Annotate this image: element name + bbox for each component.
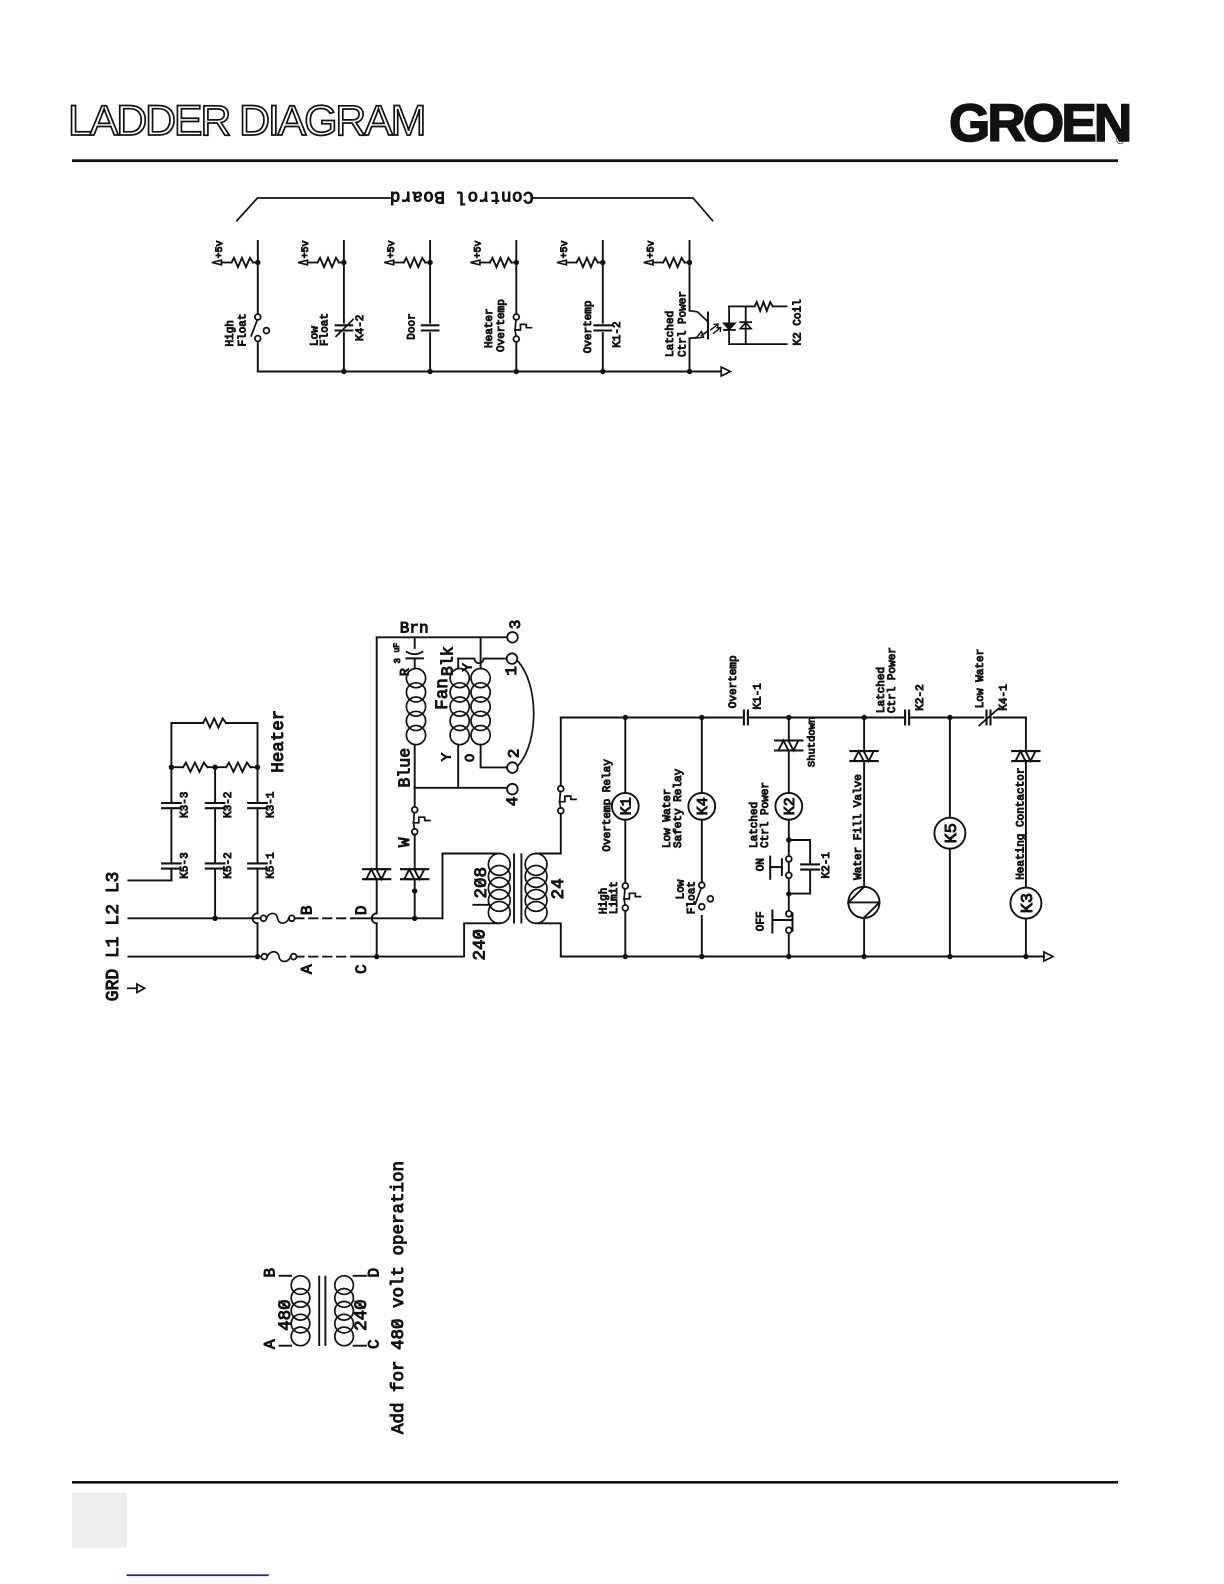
- label 1: [503, 666, 521, 676]
- heater bank top wire: [171, 722, 257, 724]
- contact K1-1: [743, 711, 745, 725]
- label C (480): [366, 1339, 384, 1349]
- contact K4-2 (NC): [336, 319, 354, 336]
- rail 2 wire Low Float: [343, 241, 345, 372]
- svg-text:High: High: [225, 320, 237, 346]
- terminal 3: [507, 632, 518, 643]
- 480V transformer A lead: [280, 1345, 291, 1347]
- label Y bottom: [440, 752, 456, 761]
- svg-text:240: 240: [470, 929, 490, 961]
- contact K5-1: [248, 862, 267, 864]
- label 2: [505, 749, 523, 759]
- wire K2 coil return: [746, 343, 787, 345]
- terminal 2: [507, 762, 518, 773]
- wire L3: [128, 869, 171, 881]
- wire L2: [128, 916, 260, 921]
- svg-text:Blue: Blue: [395, 748, 414, 788]
- label Low Float (ladder): [676, 879, 699, 914]
- +5v pull-up resistor rail 4: [470, 240, 519, 267]
- svg-text:1: 1: [503, 666, 521, 676]
- dashed wire A to C: [309, 956, 352, 958]
- svg-text:Low Water: Low Water: [975, 649, 987, 708]
- phototransistor Latched Ctrl Power: [690, 311, 721, 339]
- wire D to transformer: [352, 854, 499, 922]
- svg-text:K4-2: K4-2: [355, 315, 367, 341]
- svg-text:4: 4: [504, 797, 522, 807]
- svg-text:Add for 480 volt operation: Add for 480 volt operation: [389, 1161, 409, 1434]
- relay K3: [1010, 888, 1041, 919]
- optocoupler LED pair: [724, 306, 751, 344]
- pushbutton OFF: [786, 911, 792, 917]
- svg-text:Heating Contactor: Heating Contactor: [1016, 768, 1028, 880]
- svg-text:Heater: Heater: [484, 308, 496, 348]
- triac heating contactor: [1012, 750, 1039, 752]
- control board bottom bus: [258, 369, 721, 374]
- ladder top bus: [561, 715, 1026, 720]
- contact K5-3: [162, 862, 181, 864]
- svg-text:Float: Float: [687, 881, 699, 914]
- svg-text:Heater: Heater: [269, 710, 289, 773]
- svg-text:24: 24: [549, 878, 569, 899]
- label A (480): [262, 1339, 280, 1349]
- svg-text:K2: K2: [782, 797, 799, 815]
- switch secondary thermal: [558, 786, 564, 792]
- resistor K2 coil series: [746, 302, 787, 311]
- +5v pull-up resistor rail 3: [384, 240, 433, 267]
- 480V transformer D lead: [354, 1275, 366, 1277]
- svg-text:GROEN: GROEN: [949, 94, 1129, 153]
- label Heater Overtemp: [484, 299, 508, 352]
- label R3: [393, 658, 413, 676]
- rail 6 wire Latched Ctrl Power: [689, 241, 691, 372]
- svg-text:K1-2: K1-2: [612, 321, 624, 347]
- contact K3-1: [248, 802, 267, 804]
- label D: [353, 905, 371, 915]
- svg-text:208: 208: [472, 867, 492, 899]
- svg-text:K5: K5: [943, 823, 962, 843]
- svg-text:3: 3: [507, 620, 525, 630]
- relay K5: [934, 818, 965, 849]
- svg-text:Fan: Fan: [433, 678, 453, 710]
- svg-text:Shutdown: Shutdown: [807, 717, 819, 767]
- switch Low Float (K4): [699, 882, 705, 888]
- pushbutton ON: [786, 856, 792, 862]
- triac Shutdown: [775, 739, 802, 741]
- svg-text:+5v: +5v: [473, 240, 484, 258]
- relay K2 rail: [786, 718, 791, 957]
- label Add for 480 volt operation: [389, 1161, 409, 1434]
- 480V secondary winding: [335, 1276, 354, 1346]
- contact K3-2: [206, 802, 225, 804]
- valve rail: [863, 718, 865, 957]
- switch Heater Overtemp: [513, 314, 531, 342]
- contact K1-2: [595, 325, 612, 330]
- switch High Limit (K1): [622, 883, 628, 889]
- fan right triac lower lead: [412, 879, 417, 918]
- svg-text:K2 Coil: K2 Coil: [793, 299, 805, 345]
- triac water fill: [850, 750, 877, 752]
- svg-text:K2-1: K2-1: [821, 852, 833, 879]
- footer rule: [72, 1481, 1118, 1484]
- switch W: [412, 788, 430, 869]
- svg-text:Overtemp Relay: Overtemp Relay: [602, 759, 614, 852]
- secondary top lead: [536, 814, 561, 854]
- svg-text:Overtemp: Overtemp: [496, 299, 508, 352]
- svg-text:K3-3: K3-3: [179, 792, 191, 818]
- secondary bottom lead: [536, 923, 561, 956]
- svg-text:+5v: +5v: [560, 240, 571, 258]
- rail 1 wire High Float: [257, 241, 259, 372]
- svg-text:K2-2: K2-2: [915, 684, 927, 710]
- svg-text:OFF: OFF: [756, 911, 768, 931]
- svg-text:480: 480: [276, 1299, 296, 1331]
- svg-text:+5v: +5v: [647, 240, 658, 258]
- svg-text:LADDER DIAGRAM: LADDER DIAGRAM: [68, 97, 424, 145]
- label Y top: [461, 663, 477, 672]
- ground arrow GRD: [128, 984, 145, 993]
- svg-text:Float: Float: [320, 313, 332, 346]
- 480V transformer core: [319, 1277, 325, 1345]
- contact K4-1 (NC): [979, 708, 999, 725]
- svg-text:K4-1: K4-1: [998, 684, 1010, 711]
- header rule: [72, 159, 1118, 162]
- svg-text:+5v: +5v: [215, 240, 226, 258]
- svg-text:D: D: [366, 1268, 384, 1278]
- svg-text:W: W: [396, 837, 414, 847]
- heater bank mid wire: [169, 765, 261, 770]
- svg-text:Ctrl Power: Ctrl Power: [677, 291, 689, 357]
- rail 5 wire Overtemp: [602, 241, 604, 372]
- transformer secondary winding 24: [525, 854, 547, 924]
- svg-text:K4: K4: [695, 797, 712, 815]
- label B: [298, 905, 316, 915]
- svg-text:C: C: [353, 964, 371, 974]
- fan winding Blue-Brn: [406, 669, 425, 745]
- terminal 4: [507, 784, 518, 795]
- svg-text:uF: uF: [393, 643, 402, 653]
- resistor heater right: [226, 763, 250, 772]
- +5v pull-up resistor rail 2: [298, 240, 347, 267]
- wire fan common to terminal 4: [415, 787, 508, 789]
- terminal 1: [507, 653, 518, 664]
- switch High Float: [251, 314, 269, 341]
- svg-text:K5-3: K5-3: [179, 852, 191, 878]
- label 240 primary: [470, 929, 490, 961]
- wire Brn top: [377, 636, 508, 638]
- svg-text:Latched: Latched: [665, 311, 677, 357]
- control board brace: [237, 198, 390, 221]
- label A: [298, 964, 316, 974]
- relay K4: [688, 793, 715, 820]
- ladder bus arrow: [1044, 952, 1053, 961]
- wire C to transformer: [352, 923, 499, 959]
- footer gray box: [72, 1493, 127, 1548]
- relay K5 rail: [949, 718, 951, 957]
- svg-text:K3-1: K3-1: [266, 791, 278, 818]
- fan winding middle: [450, 659, 469, 788]
- heater rail 1 wires: [170, 723, 172, 880]
- svg-text:K1-1: K1-1: [753, 683, 765, 710]
- 480V transformer C lead: [354, 1345, 366, 1347]
- GROEN logo: [949, 94, 1129, 153]
- relay K1: [612, 793, 639, 820]
- capacitor R3: [406, 637, 423, 668]
- svg-text:K1: K1: [619, 797, 636, 815]
- contact K3-3: [162, 802, 181, 804]
- relay K4 rail: [701, 718, 703, 957]
- 480V primary winding: [291, 1276, 310, 1346]
- svg-text:Y: Y: [440, 752, 456, 761]
- svg-text:A: A: [262, 1339, 280, 1349]
- svg-text:3: 3: [393, 658, 403, 663]
- svg-text:B: B: [262, 1268, 280, 1278]
- transformer 208 tap: [473, 904, 489, 906]
- wire Blue down: [414, 745, 416, 788]
- svg-text:Float: Float: [238, 313, 250, 346]
- svg-text:Ctrl Power: Ctrl Power: [887, 647, 899, 713]
- transformer core: [514, 854, 521, 922]
- svg-text:ON: ON: [756, 858, 768, 871]
- label Low Float: [310, 313, 332, 346]
- svg-text:2: 2: [505, 749, 523, 759]
- label High Float: [225, 313, 249, 346]
- svg-text:Blk: Blk: [439, 646, 458, 676]
- svg-text:®: ®: [1116, 133, 1125, 147]
- label Latched Ctrl Power (K2): [749, 782, 772, 848]
- label 4: [504, 797, 522, 807]
- control bus arrow: [721, 367, 730, 376]
- svg-text:Control Board: Control Board: [389, 186, 533, 206]
- triac fan right: [401, 868, 428, 870]
- svg-text:D: D: [353, 905, 371, 915]
- relay K2: [775, 793, 802, 820]
- fan left rail: [376, 637, 378, 869]
- label B (480): [262, 1268, 280, 1278]
- label High Limit: [599, 881, 622, 914]
- secondary rail to top bus: [560, 718, 562, 786]
- svg-text:K5-1: K5-1: [266, 852, 278, 879]
- contact K5-2: [206, 862, 225, 864]
- fuse L1: [261, 952, 303, 962]
- fan winding right: [471, 637, 507, 767]
- label C: [353, 964, 371, 974]
- +5v pull-up resistor rail 1: [212, 240, 261, 267]
- contact K2-2: [904, 711, 906, 725]
- relay K1 rail: [624, 718, 626, 957]
- heater rail 3 wires: [253, 723, 258, 957]
- +5v pull-up resistor rail 6: [644, 240, 693, 267]
- footer blue line: [127, 1574, 269, 1576]
- svg-text:C: C: [366, 1339, 384, 1349]
- svg-text:K3-2: K3-2: [223, 792, 235, 818]
- svg-text:Overtemp: Overtemp: [728, 655, 740, 708]
- +5v pull-up resistor rail 5: [557, 240, 606, 267]
- control board label: [389, 186, 533, 206]
- wire middle coil to terminal 1: [458, 659, 506, 664]
- svg-text:K5-2: K5-2: [223, 852, 235, 878]
- svg-text:K3: K3: [1019, 893, 1038, 913]
- contact K2-1 branch: [789, 840, 819, 894]
- svg-text:+5v: +5v: [387, 240, 398, 258]
- svg-text:Overtemp: Overtemp: [583, 300, 595, 353]
- rail 4 wire Heater Overtemp: [515, 241, 517, 372]
- svg-text:+5v: +5v: [301, 240, 312, 258]
- label Low Water Safety Relay: [662, 768, 685, 848]
- svg-text:Limit: Limit: [609, 881, 621, 914]
- label Latched Ctrl Power (K2-2): [876, 647, 899, 713]
- resistor heater left: [183, 763, 207, 772]
- svg-text:O: O: [463, 754, 479, 762]
- svg-text:Brn: Brn: [400, 620, 429, 638]
- label 240 (480 section): [352, 1299, 372, 1331]
- fuse L2: [261, 913, 304, 923]
- label Latched Ctrl Power (control): [665, 291, 689, 357]
- triac fan left: [363, 868, 390, 870]
- label D (480): [366, 1268, 384, 1278]
- svg-text:Door: Door: [406, 313, 418, 339]
- dashed wire B to D: [309, 917, 352, 919]
- fan left triac lower lead: [372, 879, 377, 956]
- label 3: [507, 620, 525, 630]
- relay K3 rail: [1025, 718, 1027, 957]
- capacitor Door interlock: [422, 325, 439, 330]
- svg-text:Safety Relay: Safety Relay: [673, 768, 685, 848]
- svg-text:B: B: [298, 905, 316, 915]
- svg-text:Water Fill Valve: Water Fill Valve: [853, 774, 865, 880]
- 480V transformer B lead: [280, 1275, 291, 1277]
- rail 3 wire Door: [429, 241, 431, 372]
- label 480: [276, 1299, 296, 1331]
- svg-text:Ctrl Power: Ctrl Power: [760, 782, 772, 848]
- resistor heater top: [203, 718, 226, 727]
- svg-text:240: 240: [352, 1299, 372, 1331]
- label O: [463, 754, 479, 762]
- svg-text:GRD L1 L2 L3: GRD L1 L2 L3: [104, 872, 124, 1002]
- jumper arc terminal 1 to 2: [517, 661, 533, 766]
- wire L1: [128, 954, 261, 959]
- svg-text:R: R: [398, 668, 413, 676]
- heater rail 2 wires: [214, 767, 216, 918]
- transformer primary winding 240: [488, 854, 510, 924]
- label W: [396, 837, 414, 847]
- ladder bottom bus: [561, 954, 1044, 959]
- water fill valve symbol: [848, 887, 879, 918]
- label 208: [472, 867, 492, 899]
- svg-text:A: A: [298, 964, 316, 974]
